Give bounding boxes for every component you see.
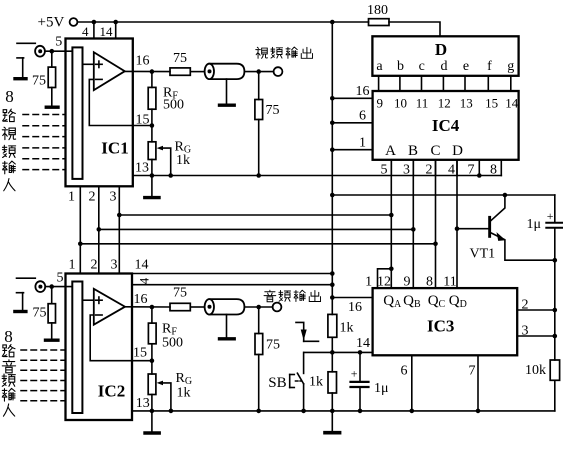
- wire IC1 pin16 output: [125, 54, 170, 74]
- svg-text:VT1: VT1: [470, 247, 496, 262]
- svg-text:QB: QB: [403, 293, 421, 310]
- wire collector rail: [332, 193, 555, 198]
- wire IC2 pin14 to bus: [132, 273, 332, 275]
- node IC4 pins 7,8 junction: [477, 173, 482, 178]
- svg-text:9: 9: [377, 96, 384, 111]
- node bus/IC2 pin14: [330, 271, 335, 276]
- svg-text:13: 13: [460, 96, 473, 111]
- wire IC2 pin4 to bus: [132, 277, 332, 284]
- ground audio barrel: [220, 337, 235, 340]
- svg-text:1k: 1k: [340, 321, 354, 336]
- svg-text:16: 16: [136, 54, 150, 69]
- svg-text:11: 11: [416, 96, 429, 111]
- svg-text:16: 16: [356, 84, 370, 99]
- wire data bus B (y=229.4): [99, 228, 414, 230]
- svg-text:14: 14: [356, 336, 370, 351]
- wire bar to op-amp input: [83, 63, 94, 65]
- svg-text:IC1: IC1: [101, 139, 128, 158]
- svg-text:16: 16: [134, 292, 148, 307]
- svg-text:c: c: [419, 59, 425, 74]
- svg-text:B: B: [408, 143, 418, 159]
- wire select line 2 (IC1 pin2 - IC2 pin2): [97, 186, 102, 273]
- svg-text:75: 75: [33, 306, 47, 321]
- svg-text:6: 6: [401, 364, 408, 379]
- svg-text:12: 12: [438, 96, 451, 111]
- wire +5V vertical bus: [331, 22, 333, 431]
- svg-text:1μ: 1μ: [374, 381, 389, 396]
- wire column IC4 pin2 to IC3 pin8: [433, 160, 438, 288]
- resistor 75 video series: [170, 51, 205, 75]
- coax cable barrel video: [205, 64, 245, 104]
- svg-text:QD: QD: [449, 293, 467, 310]
- svg-text:e: e: [463, 59, 469, 74]
- svg-text:14: 14: [135, 258, 149, 273]
- op IC4 box: [373, 91, 519, 160]
- wire IC1 pin 14 stub: [100, 22, 116, 39]
- svg-text:11: 11: [443, 275, 456, 290]
- svg-text:75: 75: [173, 286, 187, 301]
- wire IC1 pin 4 stub: [82, 22, 94, 39]
- node junction +5V rail / bus: [330, 20, 335, 25]
- svg-text:4: 4: [82, 24, 89, 39]
- ground RG2: [145, 431, 159, 434]
- wire bar to op-amp2 input: [82, 299, 93, 301]
- svg-text:4: 4: [137, 277, 152, 284]
- label video output (Chinese): [256, 47, 313, 58]
- svg-text:IC2: IC2: [98, 382, 125, 401]
- svg-text:8: 8: [5, 87, 14, 106]
- svg-text:7: 7: [469, 364, 476, 379]
- svg-text:+5V: +5V: [38, 15, 65, 31]
- svg-text:+: +: [547, 209, 554, 223]
- wires display segment stubs: [379, 76, 511, 91]
- wire IC4 pin 16: [330, 84, 373, 101]
- resistor 75 video load: [255, 72, 280, 178]
- op-amp A2 triangle: [94, 289, 125, 325]
- wire IC3 pin16 to bus: [332, 298, 372, 316]
- svg-text:6: 6: [359, 109, 366, 124]
- IC1 input channel bar: [72, 47, 82, 179]
- svg-text:1: 1: [359, 136, 366, 151]
- svg-text:75: 75: [32, 74, 46, 89]
- ground video jack: [15, 77, 26, 80]
- svg-text:1k: 1k: [309, 375, 323, 390]
- resistor RF 500 (IC1): [148, 72, 184, 126]
- svg-text:10: 10: [394, 96, 407, 111]
- op-amp mux IC2 box: [66, 274, 133, 421]
- node bus/IC2 pin4: [330, 282, 335, 287]
- node bus/collector rail: [330, 193, 335, 198]
- pushbutton SB: [268, 352, 306, 413]
- wire column IC4 pin4 to IC3 pin11: [455, 160, 460, 288]
- svg-text:5: 5: [55, 35, 62, 50]
- IC3 top pin labels: [365, 275, 457, 290]
- svg-text:180: 180: [367, 3, 388, 18]
- svg-text:1: 1: [69, 258, 76, 273]
- capacitor 1u (IC3 pin14): [351, 352, 389, 413]
- svg-text:1μ: 1μ: [527, 217, 542, 232]
- svg-text:a: a: [376, 59, 383, 74]
- counter IC3 box: [373, 288, 518, 355]
- op-amp A1 triangle: [94, 52, 125, 90]
- svg-text:15: 15: [133, 346, 147, 361]
- wire video input to IC1 pin5: [45, 35, 72, 54]
- IC2 top pin labels 1 2 3 14: [69, 258, 149, 273]
- +5V terminal: [38, 15, 78, 31]
- audio input jack J2: [17, 278, 46, 310]
- svg-text:13: 13: [135, 161, 149, 176]
- svg-text:5: 5: [57, 271, 64, 286]
- svg-text:g: g: [507, 59, 514, 74]
- svg-text:D: D: [435, 40, 447, 59]
- svg-text:15: 15: [136, 113, 150, 128]
- svg-text:75: 75: [266, 103, 280, 118]
- wire barrel to audio output: [244, 305, 272, 310]
- ground audio termination: [46, 339, 58, 342]
- wire IC3 pins 1,12 jog: [378, 269, 392, 288]
- audio channel dashed lines: [21, 350, 66, 401]
- IC1 bottom pin labels 1 2 3: [68, 190, 117, 205]
- svg-text:2: 2: [91, 258, 98, 273]
- wire data bus C (y=243.8): [80, 243, 435, 245]
- IC2 pin15 label and node: [133, 346, 154, 364]
- ground RG1: [145, 196, 159, 199]
- svg-text:500: 500: [163, 98, 184, 113]
- resistor 75 audio input termination: [33, 287, 56, 339]
- wire select line 3 (IC1 pin3 - IC2 pin3): [117, 186, 122, 273]
- svg-text:C: C: [430, 143, 440, 159]
- svg-text:2: 2: [89, 190, 96, 205]
- wire IC1 pin13 rail: [133, 161, 502, 176]
- IC2 input channel bar: [72, 282, 82, 414]
- resistor 75 audio series: [170, 286, 205, 311]
- svg-text:16: 16: [348, 300, 362, 315]
- wire right vertical: [554, 310, 556, 360]
- svg-text:1k: 1k: [177, 386, 191, 401]
- wire column IC4 pin3 to IC3 pin9: [411, 160, 416, 288]
- IC1 pin15 label and node: [136, 113, 155, 128]
- ground video termination: [46, 105, 58, 108]
- wire IC4 pin 1: [330, 136, 373, 153]
- svg-text:75: 75: [266, 338, 280, 353]
- svg-text:3: 3: [111, 258, 118, 273]
- svg-text:1: 1: [365, 275, 372, 290]
- svg-text:1k: 1k: [176, 153, 190, 168]
- audio output terminal: [273, 303, 282, 312]
- resistor 1k (bus lower): [309, 372, 337, 413]
- svg-text:SB: SB: [268, 375, 286, 391]
- svg-text:1: 1: [68, 190, 75, 205]
- wire audio input to IC2 pin5: [46, 271, 73, 289]
- wire barrel to video output: [244, 69, 273, 74]
- wire IC3 pin6: [401, 355, 415, 413]
- potentiometer RG 1k (IC2): [148, 361, 192, 432]
- wire IC2 pin13 ground rail: [132, 396, 555, 411]
- video input jack J1: [17, 43, 45, 77]
- wire IC3 pin7: [469, 355, 481, 413]
- node junction on +5V rail (pin4): [92, 20, 97, 25]
- falling edge trigger symbol: [296, 322, 319, 341]
- IC4 bottom pin row labels 5 3 2 4 7 8: [381, 160, 502, 178]
- wire column IC4 pin5 to IC3 pins 1,12: [389, 160, 394, 271]
- resistor 10k: [525, 360, 560, 411]
- ground video barrel: [220, 103, 235, 106]
- wire select line 1 (IC1 pin1 - IC2 pin1): [78, 186, 83, 273]
- svg-text:QC: QC: [428, 293, 446, 310]
- svg-text:f: f: [487, 59, 492, 74]
- svg-text:A: A: [385, 143, 396, 159]
- coax cable barrel audio: [205, 299, 245, 337]
- resistor 180: [367, 3, 389, 26]
- wire IC2 feedback to pin15: [90, 315, 152, 361]
- capacitor 1u (VT1 emitter): [527, 195, 563, 310]
- svg-text:15: 15: [485, 96, 498, 111]
- svg-text:d: d: [441, 59, 448, 74]
- svg-text:3: 3: [522, 324, 529, 339]
- svg-text:9: 9: [404, 275, 411, 290]
- wire IC3 pin2: [517, 298, 557, 313]
- svg-text:8: 8: [4, 327, 13, 346]
- svg-text:IC3: IC3: [427, 317, 454, 336]
- ground audio jack: [15, 310, 26, 313]
- wire IC4 pin 6: [330, 109, 373, 126]
- potentiometer RG 1k (IC1): [148, 126, 191, 197]
- svg-text:2: 2: [522, 298, 529, 313]
- wire data bus A (y=215): [119, 214, 391, 216]
- node junction on +5V rail (pin14): [113, 20, 118, 25]
- resistor 75 video input termination: [32, 51, 56, 105]
- label 8-channel video input (Chinese column): [2, 87, 15, 191]
- svg-text:10k: 10k: [525, 363, 546, 378]
- svg-text:D: D: [452, 143, 463, 159]
- label 8-channel audio input (Chinese column): [2, 327, 15, 416]
- svg-text:500: 500: [162, 336, 183, 351]
- video channel dashed lines: [23, 115, 66, 170]
- resistor 1k (bus upper): [328, 314, 354, 337]
- wire IC3 pin14: [304, 336, 373, 355]
- node bus/IC3 pin16: [330, 295, 335, 300]
- ground bus bottom: [325, 431, 340, 435]
- wire +5V rail: [78, 21, 369, 23]
- wire IC3 pin3: [517, 324, 557, 339]
- wire IC1 feedback to pin15: [89, 79, 152, 125]
- svg-text:12: 12: [377, 275, 391, 290]
- resistor 75 audio load: [255, 307, 280, 413]
- svg-text:IC4: IC4: [432, 116, 460, 135]
- svg-text:75: 75: [173, 51, 187, 66]
- svg-text:3: 3: [110, 190, 117, 205]
- svg-text:QA: QA: [383, 293, 402, 310]
- svg-text:8: 8: [426, 275, 433, 290]
- svg-text:+: +: [351, 367, 358, 381]
- 7-segment display D: [372, 36, 518, 76]
- svg-text:14: 14: [100, 24, 114, 39]
- wire 180 to display: [389, 22, 440, 36]
- svg-text:b: b: [397, 59, 404, 74]
- svg-text:13: 13: [136, 396, 150, 411]
- video output terminal: [274, 67, 283, 76]
- svg-text:14: 14: [505, 96, 519, 111]
- label audio output (Chinese): [264, 290, 321, 302]
- transistor VT1: [457, 195, 557, 263]
- wire IC2 pin16 output: [125, 292, 170, 309]
- op-amp mux IC1 box: [66, 39, 133, 187]
- resistor RF 500 (IC2): [148, 307, 183, 361]
